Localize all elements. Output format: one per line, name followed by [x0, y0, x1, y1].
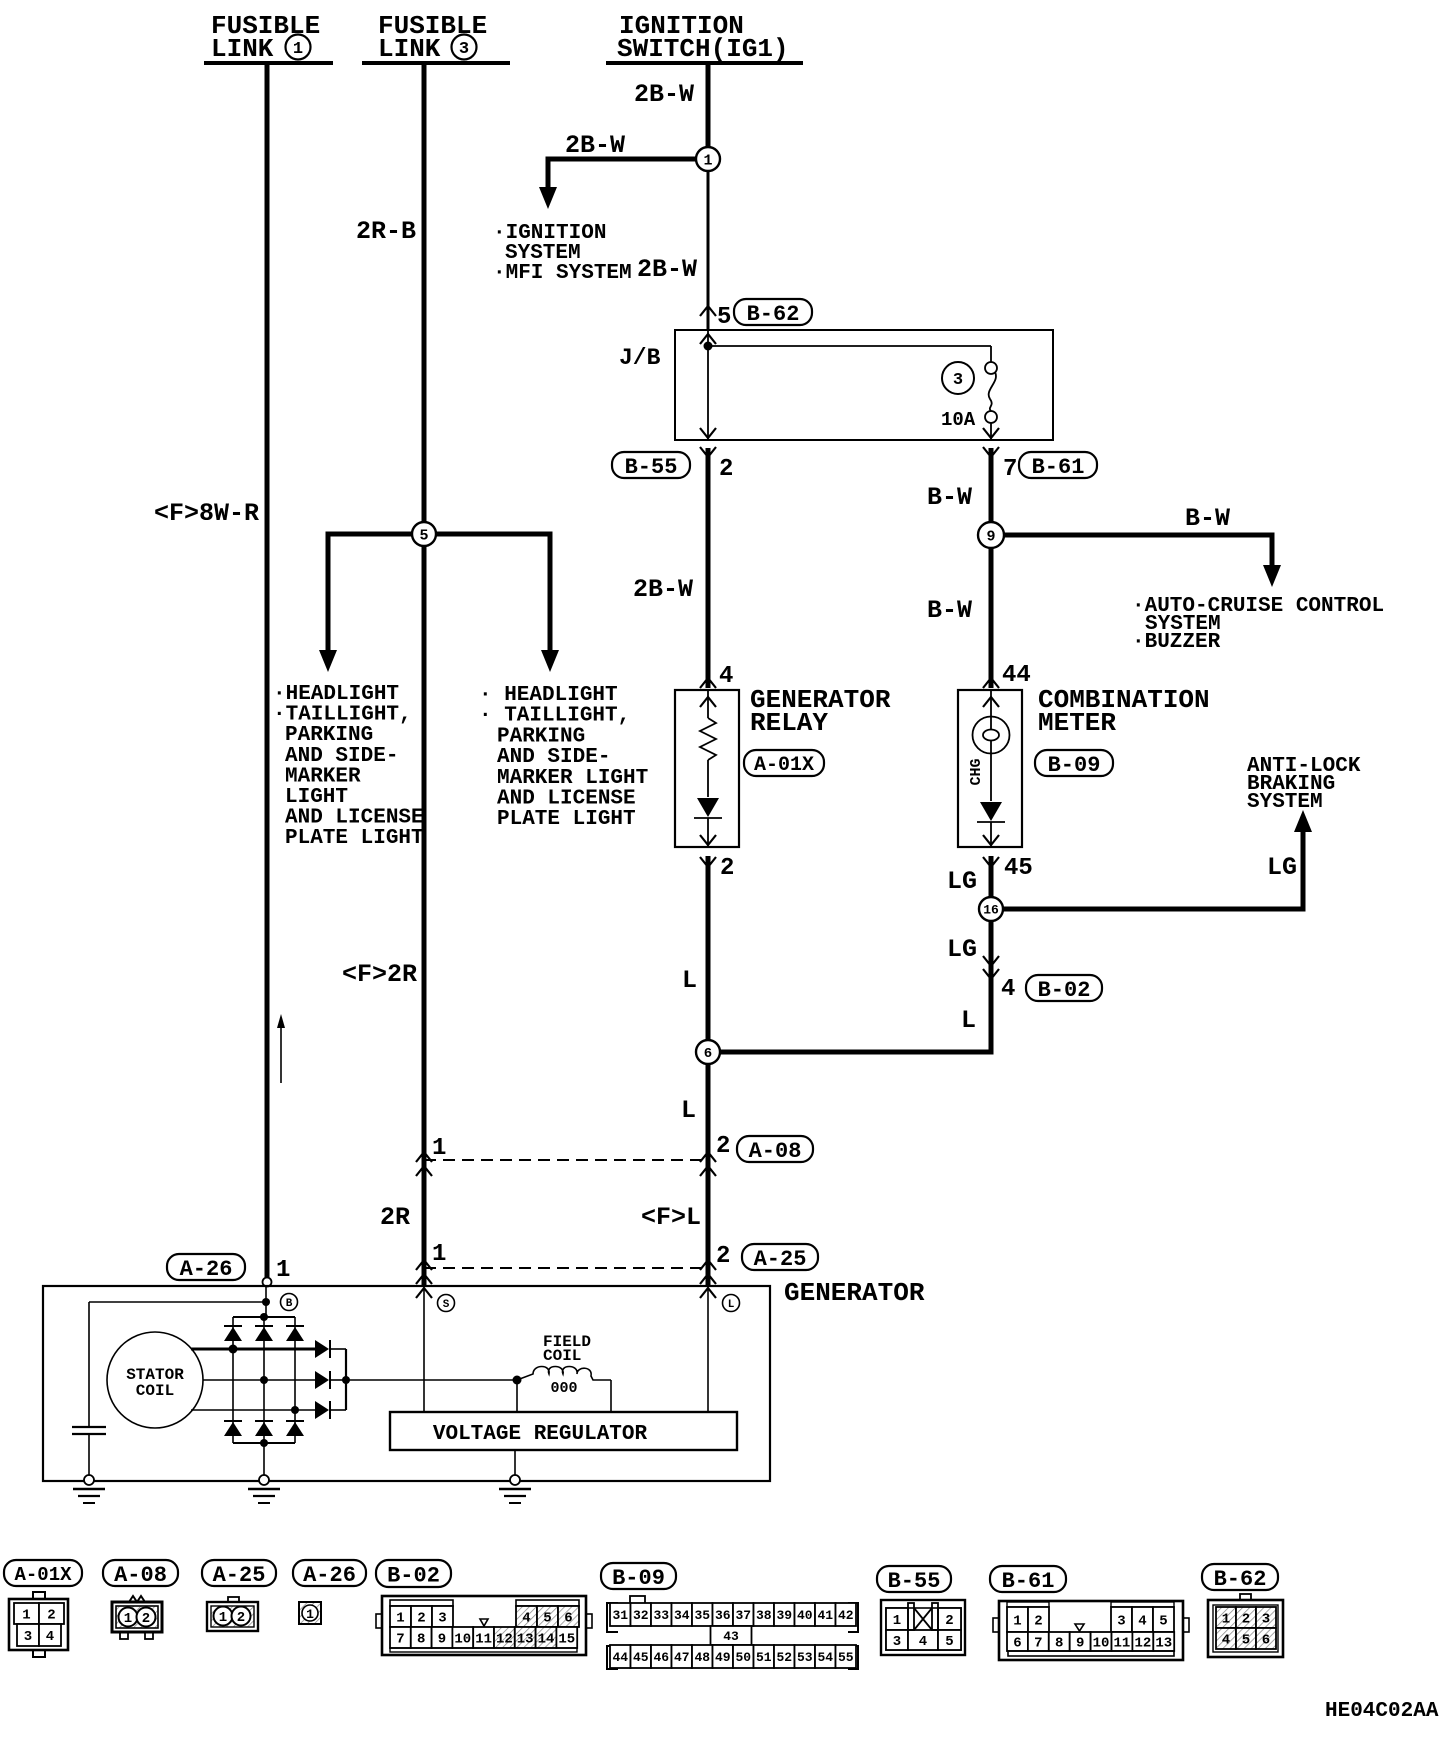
svg-text:50: 50: [735, 1650, 751, 1665]
wire branch to ignition system from junction 1: [548, 159, 696, 190]
meter diode: [980, 802, 1002, 821]
ground (rectifier): [248, 1475, 280, 1503]
generator box: [43, 1286, 770, 1481]
connector label B-62: [734, 299, 812, 325]
svg-text:33: 33: [653, 1608, 669, 1623]
svg-text:9: 9: [1076, 1636, 1084, 1652]
svg-text:1: 1: [703, 152, 712, 169]
svg-text:10: 10: [1093, 1636, 1110, 1652]
svg-text:1: 1: [306, 1607, 314, 1622]
node junction 5: [412, 522, 436, 546]
svg-text:1: 1: [276, 1257, 290, 1284]
svg-text:SWITCH(IG1): SWITCH(IG1): [617, 34, 789, 64]
connector pin L entry chevron: [700, 1288, 716, 1298]
rectifier bridge: [224, 1313, 304, 1447]
svg-text:34: 34: [674, 1608, 690, 1623]
svg-text:1: 1: [219, 1610, 227, 1626]
svg-text:A-08: A-08: [749, 1139, 802, 1164]
svg-text:1: 1: [293, 40, 303, 59]
svg-text:5: 5: [717, 304, 731, 331]
svg-text:2: 2: [1242, 1612, 1250, 1628]
svg-text:2: 2: [142, 1611, 150, 1627]
svg-text:7: 7: [1034, 1636, 1042, 1652]
svg-text:2B-W: 2B-W: [633, 575, 693, 604]
svg-text:LINK: LINK: [211, 34, 274, 64]
connector A-01X pinout: [4, 1560, 82, 1657]
current-direction arrow beside fusible link 1 wire: [277, 1014, 285, 1083]
svg-text:2B-W: 2B-W: [637, 255, 697, 284]
power source IGNITION SWITCH (IG1) header: [606, 11, 803, 64]
wire fusible link 3 vertical 2R-B: [422, 63, 427, 1286]
connector B-02 pinout: [376, 1560, 592, 1655]
svg-text:A-01X: A-01X: [754, 754, 814, 777]
connector pin 5 B-62 entry: [700, 306, 716, 316]
svg-text:GENERATOR: GENERATOR: [784, 1278, 925, 1308]
power source FUSIBLE LINK 3 header: [362, 11, 510, 64]
svg-text:5: 5: [945, 1634, 953, 1650]
terminal L: [723, 1295, 740, 1312]
svg-text:3: 3: [953, 371, 963, 390]
generator internal: B node wiring: [265, 1286, 267, 1317]
svg-text:B-09: B-09: [1048, 753, 1101, 778]
wire inside J/B vertical: [707, 330, 709, 440]
connector label B-09: [1035, 750, 1113, 776]
connector label A-25: [742, 1244, 818, 1270]
connector label B-61: [1019, 452, 1097, 478]
connector pin 4 relay entry: [700, 678, 716, 688]
svg-text:5: 5: [1159, 1614, 1167, 1630]
svg-text:1: 1: [1013, 1614, 1021, 1630]
wire from junction 1 down to J/B 2B-W: [707, 168, 710, 330]
svg-text:LINK: LINK: [378, 34, 441, 64]
svg-text:49: 49: [715, 1650, 731, 1665]
svg-text:PLATE LIGHT: PLATE LIGHT: [285, 827, 424, 850]
svg-text:4: 4: [522, 1611, 530, 1627]
svg-text:3: 3: [24, 1629, 32, 1645]
connector A-25 dashed in-line: [424, 1267, 708, 1269]
svg-text:10A: 10A: [941, 409, 976, 431]
svg-text:A-25: A-25: [213, 1563, 266, 1588]
svg-text:A-25: A-25: [754, 1247, 807, 1272]
terminal B: [281, 1294, 298, 1311]
wire ignition switch vertical 2B-W: [706, 63, 711, 150]
svg-text:B-W: B-W: [927, 483, 972, 512]
svg-text:MARKER: MARKER: [285, 765, 361, 788]
svg-text:A-01X: A-01X: [14, 1564, 72, 1586]
svg-text:51: 51: [756, 1650, 772, 1665]
svg-text:38: 38: [756, 1608, 772, 1623]
junction block J/B box: [675, 330, 1053, 440]
svg-text:METER: METER: [1038, 708, 1116, 738]
svg-text:LIGHT: LIGHT: [285, 786, 348, 809]
svg-text:44: 44: [1002, 662, 1031, 689]
ground (capacitor): [73, 1475, 105, 1503]
svg-text:5: 5: [419, 527, 428, 544]
svg-text:2B-W: 2B-W: [565, 131, 625, 160]
svg-text:2: 2: [1034, 1614, 1042, 1630]
svg-text:16: 16: [983, 903, 999, 918]
svg-text:15: 15: [558, 1632, 575, 1648]
svg-text:5: 5: [1242, 1633, 1250, 1649]
svg-text:39: 39: [776, 1608, 792, 1623]
svg-text:LG: LG: [947, 867, 977, 896]
connector label A-01X: [744, 750, 824, 776]
svg-text:52: 52: [776, 1650, 792, 1665]
node junction 9: [978, 522, 1004, 548]
combination meter box B-09: [958, 690, 1022, 847]
connector A-26 pinout: [293, 1560, 366, 1624]
connector pin S entry chevron: [416, 1288, 432, 1298]
connector label B-02: [1026, 975, 1102, 1001]
svg-text:10: 10: [454, 1632, 471, 1648]
svg-text:SYSTEM: SYSTEM: [1247, 791, 1323, 814]
svg-text:1: 1: [432, 1241, 446, 1268]
svg-text:48: 48: [694, 1650, 710, 1665]
charge warning lamp: [973, 717, 1010, 754]
svg-text:·MFI SYSTEM: ·MFI SYSTEM: [493, 262, 632, 285]
svg-text:L: L: [682, 966, 697, 995]
destination text headlight taillight (right block): [479, 684, 648, 831]
voltage regulator: [390, 1412, 737, 1450]
connector A-25 pinout: [202, 1560, 276, 1631]
node junction 16: [979, 897, 1003, 921]
connector label A-26: [167, 1254, 245, 1280]
svg-text:<F>L: <F>L: [641, 1203, 701, 1232]
relay internal wire: [707, 690, 709, 718]
svg-text:·HEADLIGHT: ·HEADLIGHT: [273, 683, 399, 706]
svg-text:AND LICENSE: AND LICENSE: [497, 788, 636, 811]
svg-text:2: 2: [47, 1608, 55, 1624]
svg-text:4: 4: [1138, 1614, 1146, 1630]
svg-text:A-08: A-08: [114, 1563, 167, 1588]
connector B-62 pinout: [1202, 1564, 1283, 1657]
connector A-08 dashed in-line: [424, 1159, 708, 1161]
svg-text:B-02: B-02: [387, 1563, 440, 1588]
svg-text:53: 53: [797, 1650, 813, 1665]
svg-text:RELAY: RELAY: [750, 708, 828, 738]
svg-text:CHG: CHG: [968, 758, 985, 785]
generator internal: B wire to ground: [263, 1443, 265, 1476]
destination text ignition system / MFI system: [493, 222, 632, 285]
svg-text:6: 6: [564, 1611, 572, 1627]
svg-text:LG: LG: [1267, 853, 1297, 882]
wire branch left from junction 5: [328, 534, 412, 652]
svg-text:6: 6: [704, 1046, 712, 1062]
wire inside J/B horizontal to fuse: [708, 345, 991, 347]
svg-text:2: 2: [719, 456, 733, 483]
svg-text:B-02: B-02: [1038, 978, 1091, 1003]
svg-text:PARKING: PARKING: [285, 724, 373, 747]
svg-text:B-W: B-W: [1185, 504, 1230, 533]
node junction 1: [696, 147, 720, 171]
svg-text:45: 45: [633, 1650, 649, 1665]
svg-text:7: 7: [1003, 456, 1017, 483]
svg-text:6: 6: [1013, 1636, 1021, 1652]
svg-text:35: 35: [694, 1608, 710, 1623]
svg-text:1: 1: [124, 1611, 132, 1627]
relay coil resistor: [700, 718, 716, 760]
svg-text:46: 46: [653, 1650, 669, 1665]
svg-text:4: 4: [719, 663, 733, 690]
wire LG from meter to junction 16: [989, 856, 994, 1052]
svg-text:7: 7: [396, 1632, 404, 1648]
relay diode: [697, 798, 719, 817]
wire fusible link 1 vertical 8W-R: [265, 63, 270, 1278]
connector pin 7 B-61 exit: [983, 428, 999, 438]
svg-text:41: 41: [817, 1608, 833, 1623]
destination text auto-cruise control system / buzzer: [1132, 595, 1384, 654]
svg-text:9: 9: [986, 528, 995, 545]
field coil: [346, 1333, 611, 1412]
svg-text:PARKING: PARKING: [497, 725, 585, 748]
generator relay box A-01X: [675, 690, 739, 847]
svg-text:AND SIDE-: AND SIDE-: [285, 745, 398, 768]
generator internal: S wire: [423, 1286, 425, 1412]
svg-text:11: 11: [1114, 1636, 1131, 1652]
svg-text:B-09: B-09: [612, 1566, 665, 1591]
svg-text:3: 3: [893, 1634, 901, 1650]
capacitor (noise suppressor): [72, 1302, 106, 1476]
connector pin 4 B-02 pass-through: [983, 956, 999, 966]
connector B-61 pinout: [990, 1566, 1189, 1660]
svg-text:4: 4: [919, 1634, 927, 1650]
wire branch right from junction 5: [436, 534, 550, 652]
svg-text:5: 5: [543, 1611, 551, 1627]
svg-text:<F>2R: <F>2R: [342, 960, 417, 989]
svg-text:B-61: B-61: [1002, 1569, 1055, 1594]
svg-text:B-55: B-55: [625, 455, 678, 480]
stator phase wires: [191, 1348, 315, 1351]
terminal S: [438, 1295, 455, 1312]
svg-text:4: 4: [1222, 1633, 1230, 1649]
svg-text:1: 1: [893, 1613, 901, 1629]
svg-text:B-W: B-W: [927, 596, 972, 625]
svg-text:AND LICENSE: AND LICENSE: [285, 807, 424, 830]
svg-text:S: S: [443, 1299, 450, 1311]
svg-text:MARKER LIGHT: MARKER LIGHT: [497, 767, 648, 790]
svg-text:VOLTAGE REGULATOR: VOLTAGE REGULATOR: [433, 1423, 648, 1446]
connector B-09 pinout: [601, 1563, 858, 1669]
svg-text:55: 55: [838, 1650, 854, 1665]
svg-text:B-62: B-62: [1214, 1567, 1267, 1592]
svg-text:2: 2: [716, 1243, 730, 1270]
wire branch from junction 9 to auto-cruise: [1003, 535, 1272, 565]
svg-text:· HEADLIGHT: · HEADLIGHT: [479, 684, 618, 707]
svg-text:2: 2: [720, 855, 734, 882]
ground (voltage regulator): [499, 1475, 531, 1503]
svg-text:COIL: COIL: [136, 1382, 174, 1400]
svg-text:31: 31: [612, 1608, 628, 1623]
svg-text:2: 2: [237, 1610, 245, 1626]
svg-text:000: 000: [550, 1380, 577, 1397]
node J/B internal junction: [704, 342, 713, 351]
svg-text:HE04C02AA: HE04C02AA: [1325, 1700, 1439, 1723]
svg-text:<F>8W-R: <F>8W-R: [154, 499, 259, 528]
connector pin 2 B-55 exit: [700, 428, 716, 438]
svg-text:13: 13: [1155, 1636, 1172, 1652]
svg-text:L: L: [728, 1299, 735, 1311]
svg-text:11: 11: [475, 1632, 492, 1648]
svg-text:42: 42: [838, 1608, 854, 1623]
wire 2B-W from J/B to generator relay: [706, 448, 711, 688]
svg-text:13: 13: [517, 1632, 534, 1648]
svg-text:4: 4: [1001, 976, 1015, 1003]
stator coil: [107, 1332, 203, 1428]
connector A-08 pinout: [103, 1560, 178, 1639]
svg-text:14: 14: [538, 1632, 555, 1648]
svg-text:L: L: [961, 1006, 976, 1035]
svg-text:45: 45: [1004, 855, 1033, 882]
svg-text:1: 1: [396, 1611, 404, 1627]
svg-text:2: 2: [417, 1611, 425, 1627]
svg-text:54: 54: [817, 1650, 833, 1665]
destination text anti-lock braking system: [1247, 755, 1361, 814]
svg-text:4: 4: [46, 1629, 54, 1645]
svg-text:3: 3: [1262, 1612, 1270, 1628]
svg-text:2: 2: [945, 1613, 953, 1629]
open-circle terminal at generator B pin: [263, 1278, 272, 1287]
svg-text:FIELD: FIELD: [543, 1333, 591, 1351]
svg-text:PLATE LIGHT: PLATE LIGHT: [497, 808, 636, 831]
connector pin 44 meter entry: [983, 678, 999, 688]
generator internal: L wire: [707, 1286, 709, 1412]
svg-text:9: 9: [438, 1632, 446, 1648]
svg-text:· TAILLIGHT,: · TAILLIGHT,: [479, 705, 630, 728]
svg-text:8: 8: [417, 1632, 425, 1648]
svg-text:AND SIDE-: AND SIDE-: [497, 746, 610, 769]
svg-text:A-26: A-26: [180, 1257, 233, 1282]
wire branch from junction 16 to anti-lock braking system: [1003, 830, 1303, 909]
svg-text:1: 1: [432, 1135, 446, 1162]
connector label A-08: [737, 1136, 813, 1162]
svg-text:2R: 2R: [380, 1203, 410, 1232]
svg-text:44: 44: [612, 1650, 628, 1665]
svg-text:37: 37: [735, 1608, 751, 1623]
svg-text:1: 1: [1222, 1612, 1230, 1628]
svg-text:B: B: [286, 1298, 293, 1310]
svg-text:B-61: B-61: [1032, 455, 1085, 480]
connector label B-55: [612, 452, 690, 478]
svg-text:A-26: A-26: [303, 1563, 356, 1588]
svg-text:32: 32: [633, 1608, 649, 1623]
power source FUSIBLE LINK 1 header: [204, 11, 333, 64]
wire L from relay to junction 6: [706, 856, 711, 1286]
trio diodes: [315, 1340, 350, 1419]
svg-text:·BUZZER: ·BUZZER: [1132, 631, 1221, 654]
svg-text:47: 47: [674, 1650, 690, 1665]
connector pin 2 relay exit: [700, 835, 716, 845]
svg-text:·TAILLIGHT,: ·TAILLIGHT,: [273, 704, 412, 727]
svg-text:B-62: B-62: [747, 302, 800, 327]
connector pin 45 meter exit: [983, 835, 999, 845]
svg-text:8: 8: [1055, 1636, 1063, 1652]
svg-text:3: 3: [438, 1611, 446, 1627]
svg-text:LG: LG: [947, 935, 977, 964]
svg-text:1: 1: [22, 1608, 30, 1624]
fuse 3 10A: [941, 362, 997, 431]
wire L down and left to junction 6: [720, 972, 991, 1052]
destination text headlight taillight (left block): [273, 683, 424, 850]
svg-text:2R-B: 2R-B: [356, 217, 416, 246]
svg-text:6: 6: [1262, 1633, 1270, 1649]
svg-text:2: 2: [716, 1133, 730, 1160]
svg-text:12: 12: [1134, 1636, 1151, 1652]
svg-text:3: 3: [459, 40, 469, 59]
svg-text:36: 36: [715, 1608, 731, 1623]
svg-text:L: L: [681, 1096, 696, 1125]
svg-text:J/B: J/B: [619, 345, 661, 371]
svg-text:12: 12: [496, 1632, 513, 1648]
connector B-55 pinout: [877, 1566, 965, 1655]
svg-text:43: 43: [723, 1629, 739, 1644]
svg-text:B-55: B-55: [888, 1569, 941, 1594]
svg-text:2B-W: 2B-W: [634, 80, 694, 109]
wire B-W from J/B to junction 9: [989, 448, 994, 688]
svg-text:40: 40: [797, 1608, 813, 1623]
svg-text:3: 3: [1117, 1614, 1125, 1630]
